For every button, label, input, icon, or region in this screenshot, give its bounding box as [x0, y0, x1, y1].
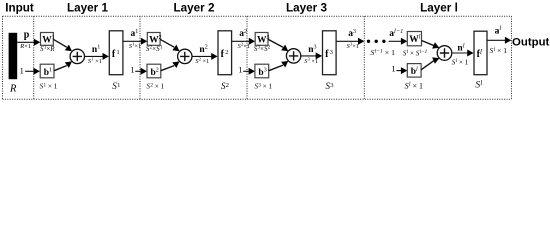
- plus sign layer 1: [73, 52, 82, 61]
- weight matrix box W2: [147, 33, 160, 46]
- transfer function box f3: [323, 31, 337, 75]
- wire W3 to sum: [268, 39, 283, 47]
- svg-text:S1 ×1: S1 ×1: [88, 57, 102, 65]
- weight matrix box Wl: [407, 32, 421, 46]
- arrow W3 into sum junction: [281, 45, 288, 52]
- weight matrix box W3: [255, 33, 268, 46]
- arrow b2 into sum junction: [172, 61, 179, 68]
- weight matrix box W1: [41, 33, 54, 46]
- wire a(l-1) rail: [389, 40, 402, 42]
- svg-text:S3 × 1: S3 × 1: [254, 82, 272, 90]
- svg-text:al−1: al−1: [389, 28, 403, 39]
- ellipsis dot 1: [367, 40, 370, 43]
- arrow a2: [249, 38, 255, 45]
- arrow into fl: [467, 50, 473, 57]
- arrow into Wl: [401, 38, 407, 45]
- divider input/layer1: [33, 16, 35, 99]
- svg-text:al: al: [495, 25, 502, 36]
- svg-text:Input: Input: [5, 2, 34, 15]
- ellipsis dot 2: [375, 40, 378, 43]
- arrow b3 into sum junction: [281, 61, 288, 68]
- svg-text:n1: n1: [92, 45, 100, 55]
- svg-text:p: p: [24, 30, 30, 41]
- bias vector box b3: [255, 64, 269, 78]
- arrow a3: [358, 38, 364, 45]
- dotted frame right border: [511, 16, 513, 99]
- svg-text:S2: S2: [221, 81, 229, 91]
- svg-text:Sl × 1: Sl × 1: [452, 58, 469, 66]
- arrow into b1: [34, 68, 40, 75]
- sum junction layer 3: [286, 49, 300, 63]
- arrow bl into sum junction: [432, 57, 439, 63]
- wire nl rail: [452, 52, 468, 54]
- svg-text:a3: a3: [348, 29, 356, 39]
- svg-text:Sl × 1: Sl × 1: [405, 82, 423, 91]
- svg-text:S3: S3: [325, 81, 333, 91]
- svg-text:S1: S1: [112, 81, 120, 91]
- wire n1 rail: [85, 55, 104, 57]
- svg-text:S3×S2: S3×S2: [254, 45, 271, 53]
- dotted frame top border: [3, 15, 512, 17]
- dotted frame left border: [2, 16, 4, 99]
- svg-text:Sl × Sl−1: Sl × Sl−1: [403, 49, 428, 57]
- svg-text:1: 1: [130, 64, 134, 74]
- wire al rail: [487, 39, 506, 41]
- svg-text:S2 × 1: S2 × 1: [146, 82, 164, 90]
- plus sign layer 2: [180, 52, 189, 61]
- svg-text:nl: nl: [457, 43, 464, 54]
- ellipsis dot 3: [382, 40, 385, 43]
- svg-text:S1×1: S1×1: [129, 42, 141, 50]
- wire bias rail layer l: [396, 70, 401, 72]
- sum junction layer 1: [70, 49, 84, 63]
- arrow into b3: [249, 68, 255, 75]
- svg-text:1: 1: [391, 64, 395, 74]
- svg-text:Sl × 1: Sl × 1: [490, 46, 508, 55]
- wire W2 to sum: [160, 39, 174, 47]
- arrow W2 into sum junction: [172, 45, 179, 52]
- wire b3 to sum: [269, 65, 283, 71]
- svg-text:1: 1: [238, 64, 242, 74]
- svg-text:S1 × 1: S1 × 1: [40, 82, 58, 90]
- wire bias rail layer 3: [243, 70, 248, 72]
- sum junction layer 2: [178, 49, 192, 63]
- svg-text:S2 ×1: S2 ×1: [195, 57, 209, 65]
- wire b1 to sum: [54, 66, 67, 71]
- bias vector box bl: [407, 64, 421, 78]
- arrow W1 into sum junction: [65, 45, 72, 52]
- arrow output: [505, 37, 511, 44]
- bias vector box b1: [40, 64, 54, 78]
- svg-text:S3×1: S3×1: [347, 42, 359, 50]
- input vector bar: [9, 33, 18, 79]
- sum junction layer l: [437, 46, 452, 61]
- arrow into bl: [401, 67, 407, 74]
- transfer function box f2: [218, 31, 232, 75]
- svg-text:Layer l: Layer l: [420, 2, 458, 15]
- wire n2 rail: [192, 55, 212, 57]
- wire p rail: [17, 41, 34, 43]
- svg-text:Sl: Sl: [475, 80, 482, 90]
- bias vector box b2: [147, 64, 161, 78]
- wire bl to sum: [421, 60, 434, 70]
- dotted frame bottom border: [3, 98, 512, 100]
- svg-text:n3: n3: [308, 45, 316, 55]
- svg-text:a1: a1: [131, 29, 139, 39]
- arrow a1: [141, 38, 147, 45]
- wire a1 rail: [123, 40, 142, 42]
- divider layer3/layer-l: [363, 16, 365, 99]
- plus sign layer 3: [289, 51, 298, 60]
- svg-text:R×1: R×1: [19, 43, 31, 50]
- arrow into f3: [316, 52, 322, 59]
- divider layer2/layer3: [246, 16, 248, 99]
- arrow b1 into sum junction: [65, 61, 72, 68]
- svg-text:R: R: [9, 84, 17, 95]
- svg-text:S1×R: S1×R: [40, 45, 55, 53]
- svg-text:Layer 3: Layer 3: [286, 2, 327, 15]
- svg-text:Output: Output: [512, 37, 550, 49]
- divider layer1/layer2: [139, 16, 141, 99]
- wire Wl to sum: [422, 41, 435, 46]
- wire W1 to sum: [53, 39, 66, 47]
- svg-text:Layer 2: Layer 2: [174, 2, 215, 15]
- arrow Wl into sum junction: [432, 42, 439, 48]
- arrow into W1: [34, 39, 40, 46]
- wire b2 to sum: [161, 66, 174, 71]
- transfer function box f1: [109, 31, 123, 75]
- arrow into f1: [103, 53, 109, 60]
- wire bias rail layer 2: [135, 70, 140, 72]
- wire a2 rail: [232, 40, 250, 42]
- svg-text:Layer 1: Layer 1: [67, 2, 108, 15]
- arrow into f2: [211, 53, 217, 60]
- svg-text:Sl−1 × 1: Sl−1 × 1: [371, 48, 396, 57]
- svg-text:a2: a2: [239, 29, 247, 39]
- arrow into b2: [141, 68, 147, 75]
- svg-text:S2×1: S2×1: [238, 42, 250, 50]
- svg-text:S2×S1: S2×S1: [146, 45, 163, 53]
- wire bias rail 1: [25, 70, 33, 72]
- plus sign layer l: [440, 48, 449, 57]
- wire n3 rail: [301, 55, 317, 57]
- svg-text:1: 1: [20, 65, 24, 75]
- svg-text:n2: n2: [199, 45, 207, 55]
- wire a3 rail: [336, 40, 359, 42]
- transfer function box fl: [474, 31, 487, 74]
- svg-text:S3 ×1: S3 ×1: [304, 57, 318, 65]
